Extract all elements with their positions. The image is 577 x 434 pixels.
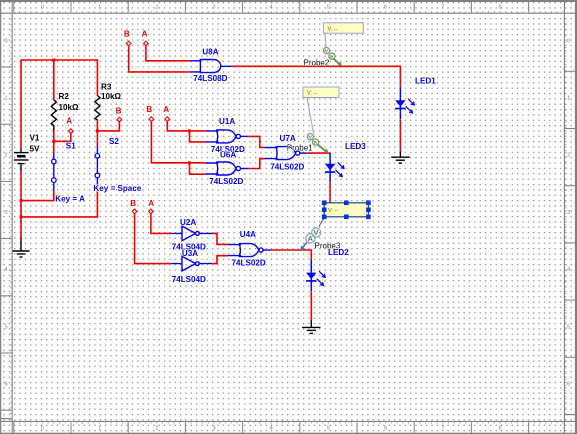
svg-text:74LS04D: 74LS04D xyxy=(172,275,206,284)
svg-text:V: --: V: -- xyxy=(328,208,338,214)
svg-text:10kΩ: 10kΩ xyxy=(101,92,122,101)
svg-text:2: 2 xyxy=(4,153,7,159)
svg-text:74LS08D: 74LS08D xyxy=(193,74,227,83)
svg-text:B: B xyxy=(130,199,136,208)
svg-text:S2: S2 xyxy=(109,137,119,146)
svg-text:4: 4 xyxy=(270,426,273,432)
svg-text:5V: 5V xyxy=(30,145,41,154)
svg-text:74LS02D: 74LS02D xyxy=(209,177,243,186)
svg-text:B: B xyxy=(116,106,122,115)
svg-text:R3: R3 xyxy=(101,83,112,92)
svg-text:B: B xyxy=(124,29,130,38)
svg-text:5: 5 xyxy=(567,324,570,330)
svg-text:3: 3 xyxy=(4,210,7,216)
svg-text:LED3: LED3 xyxy=(345,142,366,151)
svg-text:0: 0 xyxy=(4,38,7,44)
svg-text:3: 3 xyxy=(212,5,215,11)
svg-text:8: 8 xyxy=(498,426,501,432)
svg-text:3: 3 xyxy=(567,210,570,216)
svg-text:2: 2 xyxy=(567,153,570,159)
svg-text:7: 7 xyxy=(441,5,444,11)
svg-text:U2A: U2A xyxy=(180,218,196,227)
svg-text:U7A: U7A xyxy=(280,134,296,143)
svg-text:1: 1 xyxy=(98,5,101,11)
svg-text:74LS02D: 74LS02D xyxy=(232,258,266,267)
svg-text:5: 5 xyxy=(327,426,330,432)
svg-text:LED1: LED1 xyxy=(415,77,436,86)
svg-text:A: A xyxy=(148,199,154,208)
svg-text:LED2: LED2 xyxy=(328,248,349,257)
svg-text:0: 0 xyxy=(41,5,44,11)
svg-text:8: 8 xyxy=(498,5,501,11)
svg-text:V1: V1 xyxy=(30,134,40,143)
svg-text:2: 2 xyxy=(155,5,158,11)
svg-text:V: V xyxy=(314,230,319,237)
svg-text:U1A: U1A xyxy=(219,117,235,126)
svg-text:U6A: U6A xyxy=(220,151,236,160)
svg-text:V: --: V: -- xyxy=(328,27,338,33)
svg-text:U3A: U3A xyxy=(182,249,198,258)
svg-text:A: A xyxy=(142,29,148,38)
svg-text:5: 5 xyxy=(327,5,330,11)
svg-text:6: 6 xyxy=(384,426,387,432)
svg-text:3: 3 xyxy=(212,426,215,432)
svg-text:1: 1 xyxy=(4,96,7,102)
svg-text:Key = Space: Key = Space xyxy=(93,184,141,193)
svg-text:U4A: U4A xyxy=(240,230,256,239)
svg-text:5: 5 xyxy=(4,324,7,330)
svg-text:V: --: V: -- xyxy=(307,91,317,97)
svg-text:B: B xyxy=(146,105,152,114)
svg-text:1: 1 xyxy=(567,96,570,102)
svg-text:10kΩ: 10kΩ xyxy=(59,103,80,112)
svg-text:2: 2 xyxy=(155,426,158,432)
svg-text:Probe2: Probe2 xyxy=(304,58,330,67)
svg-text:Key = A: Key = A xyxy=(55,195,85,204)
svg-text:7: 7 xyxy=(441,426,444,432)
svg-text:U8A: U8A xyxy=(202,47,218,56)
svg-text:1: 1 xyxy=(98,426,101,432)
svg-text:A: A xyxy=(66,117,72,126)
svg-text:R2: R2 xyxy=(59,92,70,101)
svg-text:Probe1: Probe1 xyxy=(287,144,313,153)
svg-text:0: 0 xyxy=(41,426,44,432)
svg-text:6: 6 xyxy=(567,382,570,388)
svg-text:4: 4 xyxy=(4,267,7,273)
svg-text:4: 4 xyxy=(270,5,273,11)
svg-text:0: 0 xyxy=(567,38,570,44)
svg-text:A: A xyxy=(308,236,313,243)
svg-text:4: 4 xyxy=(567,267,570,273)
svg-text:6: 6 xyxy=(384,5,387,11)
svg-text:6: 6 xyxy=(4,382,7,388)
svg-text:S1: S1 xyxy=(66,142,76,151)
svg-text:74LS02D: 74LS02D xyxy=(270,163,304,172)
svg-text:A: A xyxy=(163,105,169,114)
